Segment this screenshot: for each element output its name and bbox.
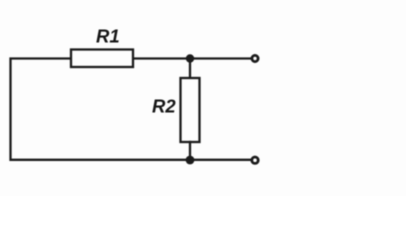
terminal: top right open circle (252, 55, 258, 61)
svg-text:R1: R1 (96, 26, 120, 47)
terminal: bottom right open circle (252, 157, 258, 163)
wire: top from R1 to right terminal (133, 57, 251, 59)
svg-text:R2: R2 (152, 96, 176, 117)
resistor R1 (71, 50, 133, 68)
node: bottom junction (186, 156, 195, 165)
wire: junction to R2 top (189, 59, 191, 79)
resistor R2 (181, 78, 200, 142)
wire: left vertical + bottom horizontal (11, 59, 251, 160)
wire: R2 bottom to bottom rail (189, 142, 191, 160)
node: top junction (186, 54, 194, 62)
